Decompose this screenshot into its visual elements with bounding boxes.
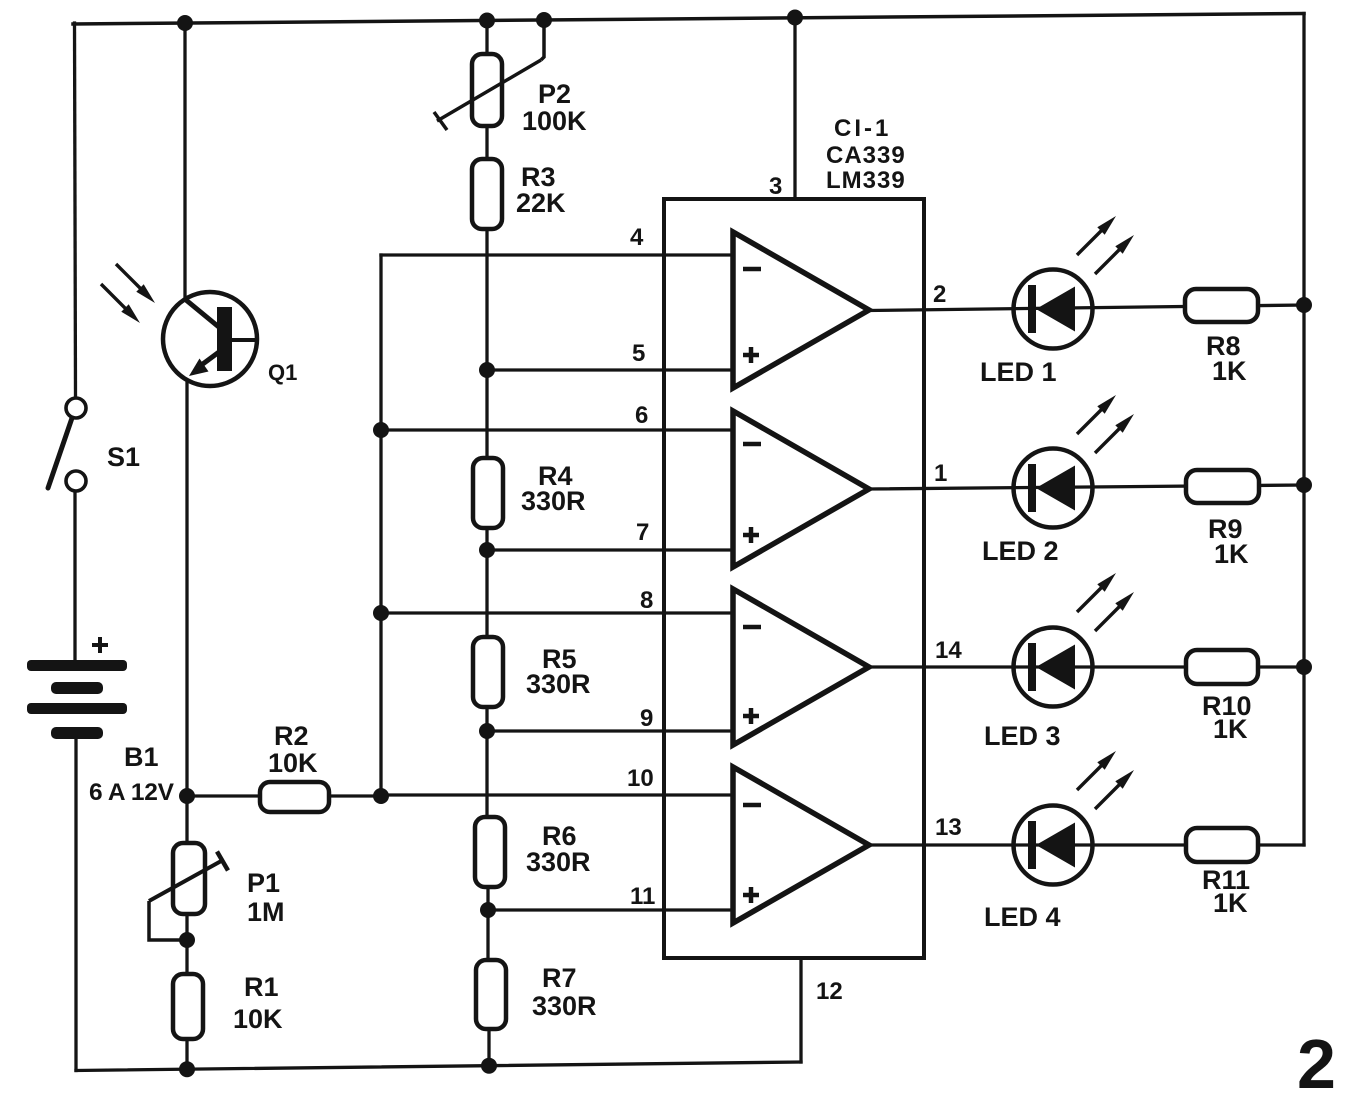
node: junction dot P1 wiper [179,932,195,948]
wire: P1 bottom to wiper node and R1 [185,912,188,974]
phototransistor Q1 [163,292,257,386]
wire: pin 3 supply lead from top rail into IC box [793,18,796,200]
light arrows out of LED 4 [1077,751,1116,790]
svg-text:1M: 1M [247,897,285,927]
wire: right rail (+12V to LED resistors) [1302,14,1305,846]
wire: comparator input line pin 4 [381,253,735,256]
wire: comparator input line pin 5 [487,368,735,371]
svg-text:1: 1 [934,460,947,487]
svg-text:14: 14 [935,637,962,664]
svg-text:13: 13 [935,814,962,841]
svg-text:6 A 12V: 6 A 12V [89,779,175,806]
wire: S1 bottom to battery plus [73,490,76,662]
light arrows out of LED 1 [1077,216,1116,255]
wire: comparator 1 output line pin 2 [869,305,1304,311]
node: junction dot R8 / right rail [1296,297,1312,313]
svg-text:12: 12 [816,978,843,1005]
node: junction dot bus / line 8 [373,605,389,621]
op-amp comparator 3 (CI-1c) [733,589,869,745]
light arrows into Q1 [116,264,155,303]
svg-text:330R: 330R [532,991,597,1021]
svg-text:6: 6 [635,402,648,429]
node: junction dot R1 / bottom rail [179,1061,195,1077]
svg-text:CI-1: CI-1 [834,115,891,142]
LED 1 [1014,270,1093,349]
wire: R6 down to R7 (taps line 11) [486,885,489,961]
svg-text:S1: S1 [107,442,140,472]
svg-text:4: 4 [630,224,644,251]
node: junction dot line 11 tap [480,902,496,918]
wire: comparator input line pin 7 [487,548,735,551]
svg-text:LED 1: LED 1 [980,357,1057,387]
IC CI-1 box (CA339/LM339) [664,199,924,958]
node: junction dot pin 3 / top rail [787,10,803,26]
node: junction dot line 9 tap [479,723,495,739]
wire: pin 12 ground lead from IC box to bottom rail [799,958,802,1062]
wire: comparator input line pin 10 [381,793,735,796]
resistor R1 [173,974,203,1039]
svg-text:P1: P1 [247,868,280,898]
node: junction dot R10 / right rail [1296,659,1312,675]
wire: top +12V supply rail [73,14,1304,25]
svg-text:8: 8 [640,587,653,614]
wire: divider chain from top rail to P2 [485,21,488,58]
node: junction dot P2 wiper / top rail [536,12,552,28]
wire: R3 down to R4 (taps line 5) [485,227,488,460]
svg-text:R7: R7 [542,963,577,993]
LED 4 [1014,806,1093,885]
wire: R4 down to R5 (taps line 7) [485,526,488,638]
resistor R10 [1186,650,1258,684]
LED 2 [1014,449,1093,528]
wire: comparator 3 output line pin 14 [869,665,1304,668]
wire: reference bus (minus-input bus) [379,255,382,796]
svg-text:3: 3 [769,173,782,200]
potentiometer P2 [434,20,544,130]
wire: P2 to R3 [485,124,488,161]
svg-text:10: 10 [627,765,654,792]
svg-text:P2: P2 [538,79,571,109]
svg-text:11: 11 [630,883,655,910]
svg-text:330R: 330R [521,486,586,516]
op-amp comparator 4 (CI-1d) [733,767,869,923]
wire: R2 right lead to reference bus [327,794,381,797]
resistor R3 [472,159,502,229]
svg-text:CA339: CA339 [826,142,906,169]
svg-text:LED 4: LED 4 [984,902,1061,932]
svg-text:B1: B1 [124,742,159,772]
node: junction dot emitter / R2 [179,788,195,804]
wire: Q1 emitter down to R2 node [185,376,188,796]
svg-text:330R: 330R [526,669,591,699]
light arrows out of LED 2 [1077,395,1116,434]
svg-text:1K: 1K [1213,714,1248,744]
resistor R9 [1186,470,1259,503]
wire: R7 down to bottom rail [487,1027,490,1066]
switch S1 [48,398,86,491]
resistor R2 [260,782,329,812]
svg-text:2: 2 [1297,1025,1336,1099]
wire: comparator input line pin 11 [488,908,735,911]
wire: R5 down to R6 (taps line 9) [485,705,488,818]
svg-text:R1: R1 [244,972,279,1002]
svg-text:1K: 1K [1213,888,1248,918]
op-amp comparator 2 (CI-1b) [733,411,869,567]
potentiometer P1 [149,843,228,940]
node: junction dot divider chain / top rail [479,13,495,29]
wire: Q1 collector to top rail [183,23,186,304]
svg-text:100K: 100K [522,106,587,136]
wire: comparator input line pin 9 [487,729,735,732]
battery B1 plus terminal marker [92,637,108,653]
resistor R4 [473,458,503,528]
wire: R1 bottom to bottom rail [185,1039,188,1069]
node: junction dot line 5 tap [479,362,495,378]
svg-text:10K: 10K [233,1004,283,1034]
svg-text:7: 7 [636,519,649,546]
svg-text:22K: 22K [516,188,566,218]
node: junction dot R7 / bottom rail [481,1058,497,1074]
op-amp comparator 1 (CI-1a) [733,232,869,388]
node: junction dot R9 / right rail [1296,477,1312,493]
svg-text:R2: R2 [274,721,309,751]
wire: bottom ground rail [76,1062,801,1071]
svg-text:9: 9 [640,705,653,732]
wire: comparator input line pin 8 [381,611,735,614]
node: junction dot line 7 tap [479,542,495,558]
wire: comparator 2 output line pin 1 [869,485,1304,489]
node: junction dot Q1 collector / top rail [177,15,193,31]
svg-text:1K: 1K [1214,539,1249,569]
svg-text:330R: 330R [526,847,591,877]
svg-text:10K: 10K [268,748,318,778]
node: junction dot bus / R2 / line 10 [373,788,389,804]
svg-text:LED 3: LED 3 [984,721,1061,751]
wire: R2 left lead [187,794,262,797]
resistor R11 [1186,828,1258,862]
wire: left rail from top rail down to S1 [75,23,76,396]
resistor R8 [1185,289,1258,322]
resistor R5 [473,637,503,707]
wire: comparator 4 output line pin 13 [869,843,1304,846]
svg-text:2: 2 [933,281,946,308]
wire: battery minus down to bottom rail [74,738,77,1071]
light arrows out of LED 3 [1077,573,1116,612]
svg-text:Q1: Q1 [268,360,297,385]
svg-text:5: 5 [632,340,645,367]
LED 3 [1014,628,1093,707]
svg-text:1K: 1K [1212,356,1247,386]
resistor R6 [475,817,505,887]
wire: R2 node down to P1 [185,796,188,845]
svg-text:LED 2: LED 2 [982,536,1059,566]
battery B1 [27,660,127,739]
node: junction dot bus / line 6 [373,422,389,438]
svg-text:LM339: LM339 [826,167,906,194]
resistor R7 [476,960,506,1029]
wire: comparator input line pin 6 [381,428,735,431]
